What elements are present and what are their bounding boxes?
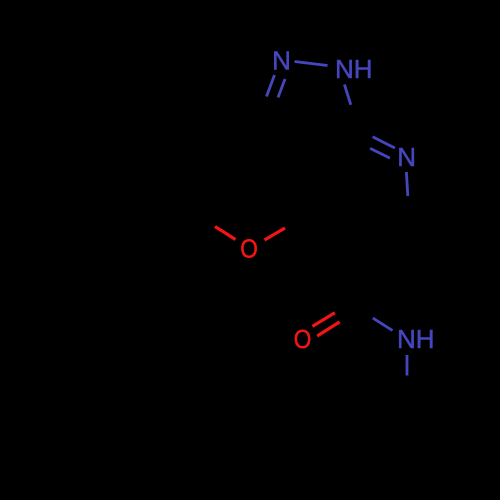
svg-text:N: N: [272, 46, 291, 76]
N1-C7a bond: [344, 84, 350, 104]
svg-text:N: N: [397, 142, 416, 172]
C7a=N7 double bond: [373, 137, 395, 148]
N2=C3 double bond: [278, 79, 285, 98]
N-alkyl bond: [406, 355, 409, 376]
svg-text:NH: NH: [397, 324, 435, 354]
C=O double bond: [312, 313, 334, 327]
N7-C6 bond: [406, 172, 407, 196]
amide C-N bond: [373, 318, 393, 330]
N2-N1 bond: [295, 62, 328, 66]
O-C4 bond: [265, 228, 286, 240]
svg-text:O: O: [240, 234, 258, 264]
hidden carbon skeleton: [141, 61, 410, 303]
O-C1' bond: [215, 227, 236, 240]
svg-text:NH: NH: [335, 54, 373, 84]
svg-text:O: O: [294, 324, 312, 354]
